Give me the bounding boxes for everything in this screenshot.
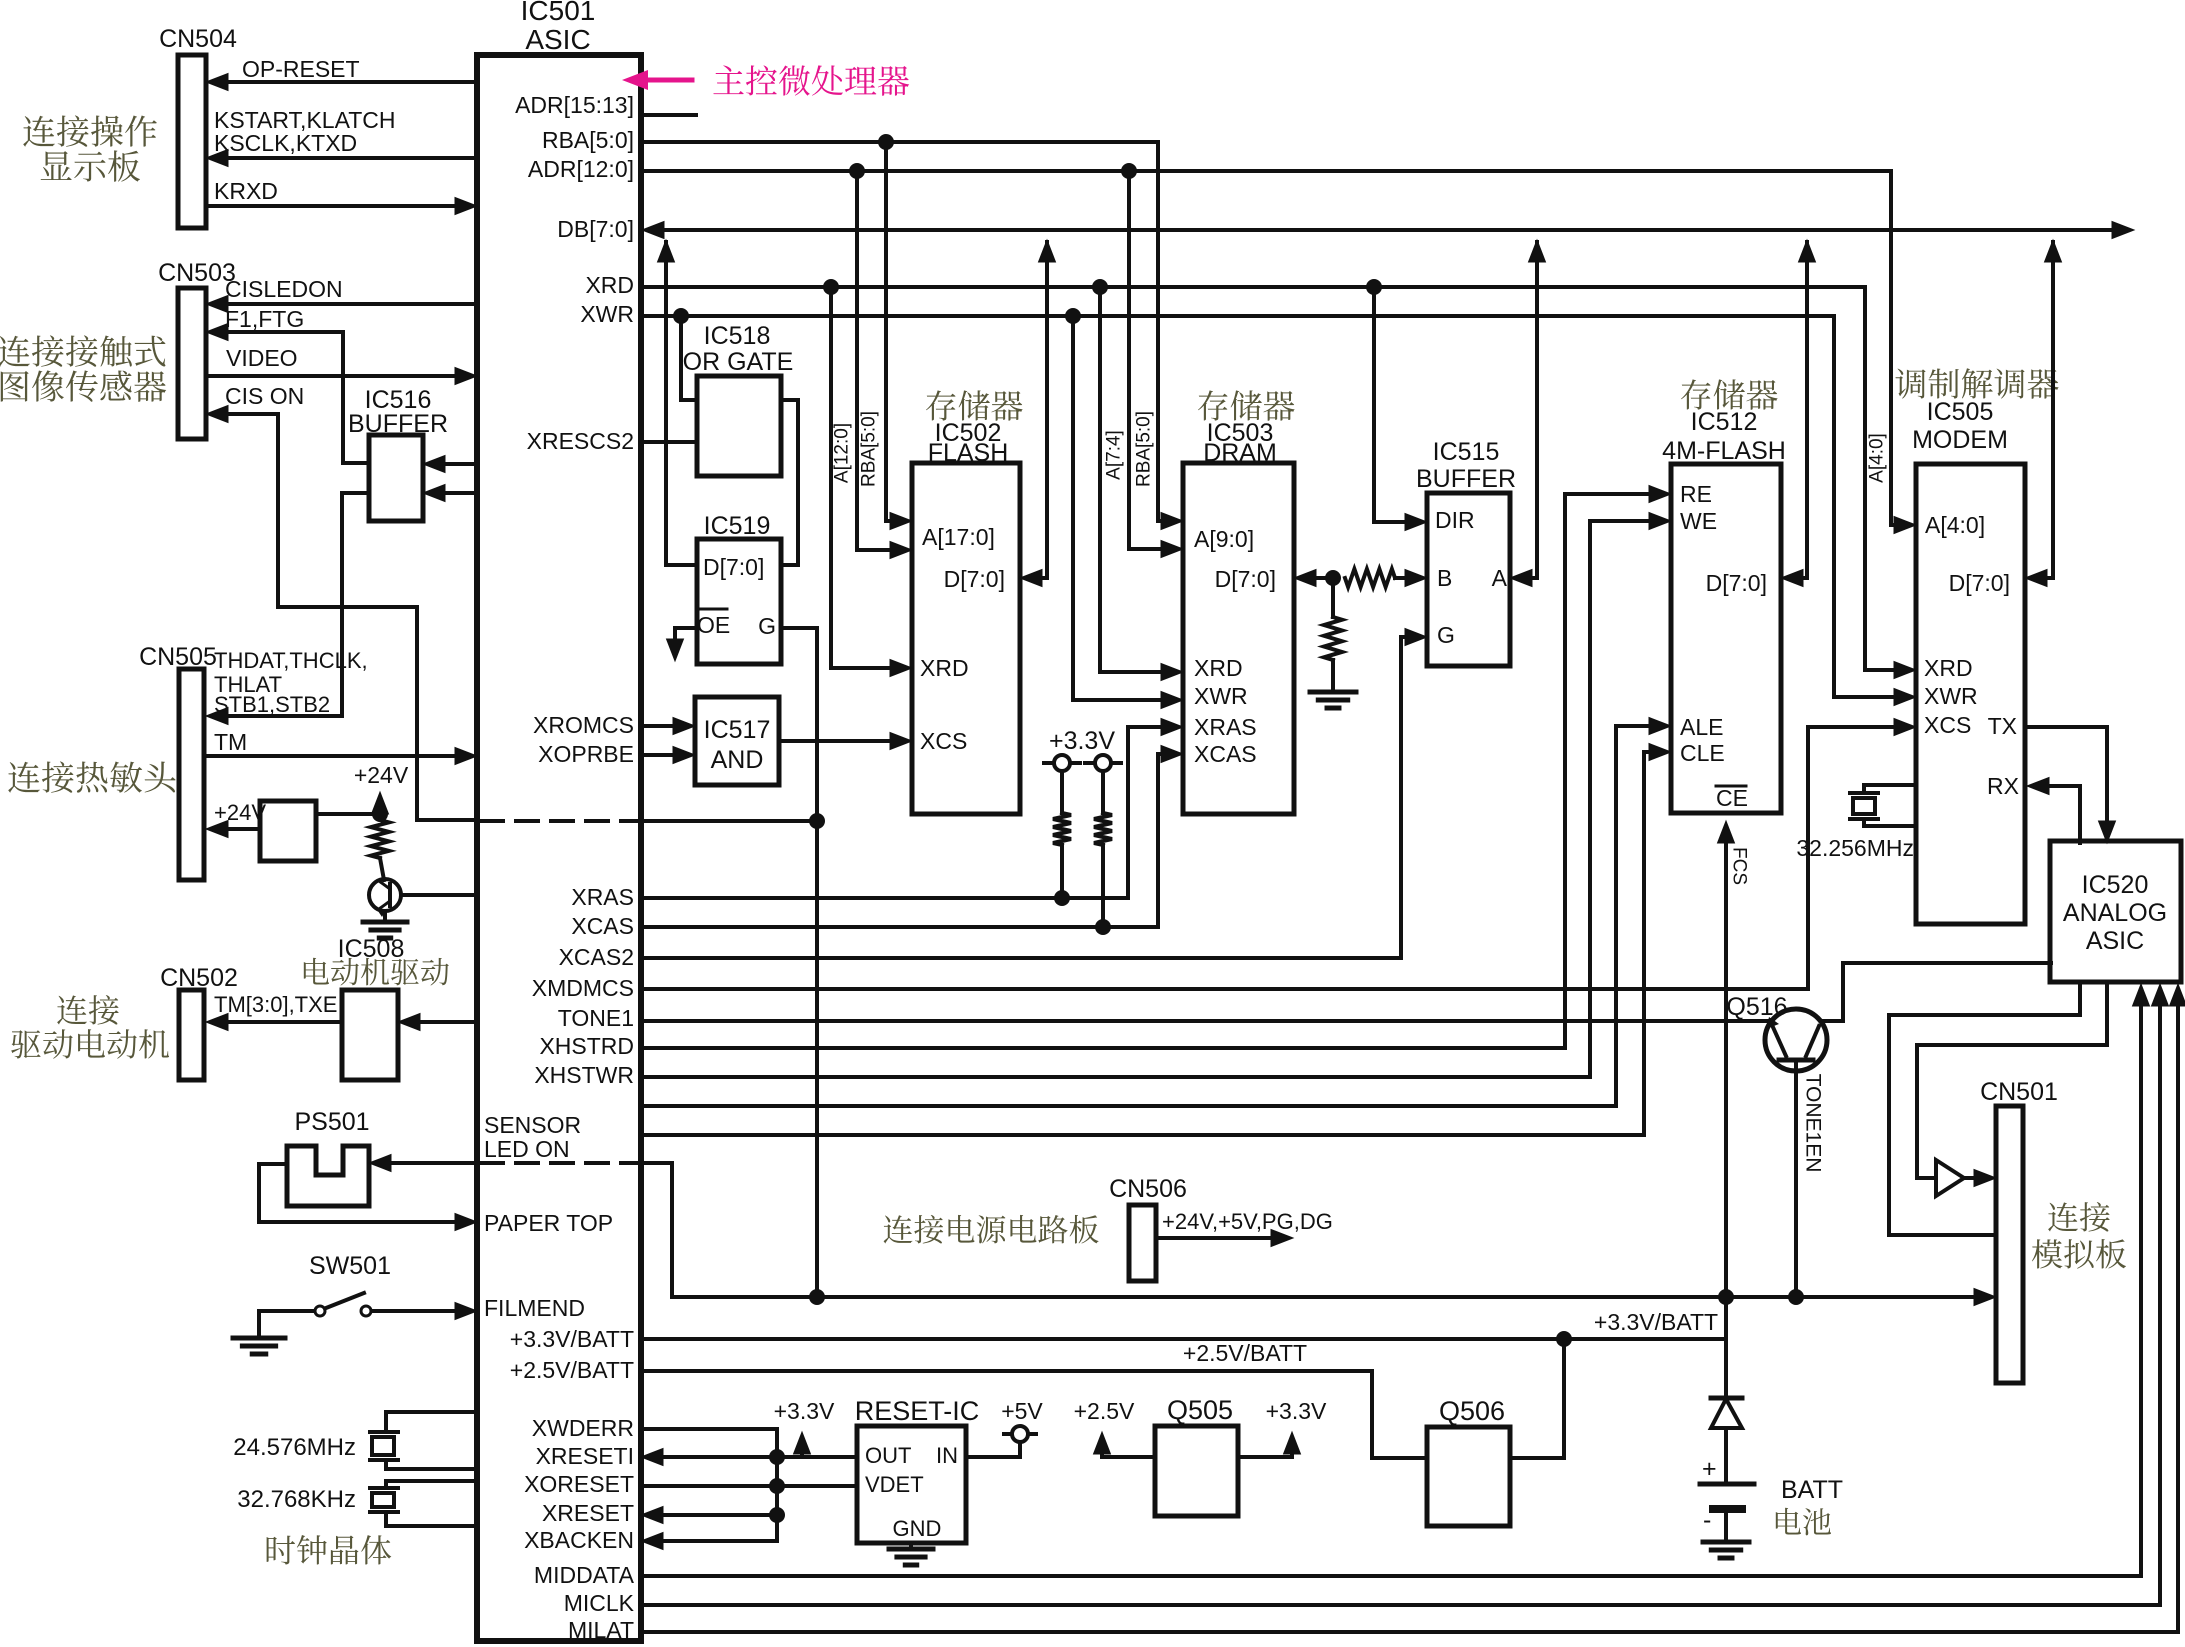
svg-text:CN502: CN502 [160, 964, 238, 992]
wire RBA to IC503 A [1158, 142, 1171, 521]
connector CN504 [178, 55, 206, 228]
svg-text:FLASH: FLASH [928, 439, 1009, 467]
svg-text:+: + [1702, 1455, 1717, 1483]
buffer (line driver to CN501) [1936, 1160, 1964, 1196]
svg-text:FCS: FCS [1729, 847, 1750, 885]
svg-text:D[7:0]: D[7:0] [1706, 570, 1767, 596]
regulator Q505 [1155, 1426, 1238, 1516]
svg-text:A[17:0]: A[17:0] [922, 524, 995, 550]
svg-text:MODEM: MODEM [1912, 426, 2008, 454]
svg-text:XRESET: XRESET [542, 1500, 634, 1526]
label: connect thermal head (Chinese) [8, 761, 175, 792]
svg-text:XMDMCS: XMDMCS [532, 975, 634, 1001]
wire DB to IC512 D [1793, 242, 1807, 578]
svg-text:XRESCS2: XRESCS2 [527, 428, 634, 454]
wire DB to IC519 [664, 242, 668, 565]
svg-text:+3.3V/BATT: +3.3V/BATT [510, 1326, 634, 1352]
svg-text:FILMEND: FILMEND [484, 1295, 585, 1321]
svg-text:IC515: IC515 [1433, 438, 1500, 466]
svg-text:XWR: XWR [1194, 683, 1248, 709]
wire +24V/control (dashed inside IC501) [481, 819, 637, 823]
crystal 32.256MHz [1864, 783, 1916, 787]
wire DB to IC505 D [2037, 242, 2053, 578]
label: motor drive (Chinese) [304, 958, 449, 986]
svg-text:-: - [1703, 1506, 1711, 1534]
connector CN505 [179, 669, 204, 880]
svg-text:+3.3V: +3.3V [1049, 727, 1115, 755]
svg-text:+2.5V: +2.5V [1074, 1398, 1135, 1424]
buffer IC515 [1427, 493, 1510, 666]
svg-text:VIDEO: VIDEO [226, 345, 298, 371]
wire DB to IC515 A [1522, 242, 1537, 578]
svg-text:TONE1EN: TONE1EN [1802, 1074, 1825, 1173]
ground (RESET-IC) [909, 1543, 913, 1549]
or-gate IC518 [697, 376, 781, 476]
svg-text:DB[7:0]: DB[7:0] [557, 216, 634, 242]
transistor Q (motor/head driver) [369, 879, 401, 911]
wire IC501 to IC516 lower [433, 491, 477, 495]
svg-text:SENSOR: SENSOR [484, 1112, 581, 1138]
svg-text:KRXD: KRXD [214, 178, 278, 204]
svg-text:MICLK: MICLK [564, 1590, 635, 1616]
flash memory IC502 [912, 463, 1020, 814]
wire XRD to IC505 [1865, 287, 1904, 670]
svg-text:ASIC: ASIC [2086, 927, 2144, 955]
wire OUT / +3.3V [777, 1455, 857, 1459]
svg-text:RBA[5:0]: RBA[5:0] [859, 411, 880, 487]
connector CN506 [1129, 1205, 1156, 1281]
svg-text:A[12:0]: A[12:0] [832, 423, 853, 483]
wire IC520 to buffer to CN501 [1917, 984, 2107, 1178]
svg-text:CIS ON: CIS ON [225, 383, 304, 409]
dram IC503 [1183, 463, 1294, 814]
svg-text:XRESETI: XRESETI [536, 1443, 634, 1469]
svg-text:XWDERR: XWDERR [532, 1415, 634, 1441]
wire to ALE [641, 726, 1659, 1106]
svg-text:+3.3V/BATT: +3.3V/BATT [1594, 1309, 1718, 1335]
svg-text:Q506: Q506 [1439, 1396, 1505, 1426]
svg-text:XRD: XRD [920, 655, 969, 681]
label: memory (Chinese) for IC503 [1198, 390, 1295, 420]
svg-text:DIR: DIR [1435, 507, 1475, 533]
svg-text:IC512: IC512 [1691, 408, 1758, 436]
svg-text:PAPER TOP: PAPER TOP [484, 1210, 613, 1236]
svg-text:TM[3:0],TXE: TM[3:0],TXE [214, 992, 337, 1017]
ground (D-bus resistor) [1310, 690, 1356, 695]
svg-text:D[7:0]: D[7:0] [1949, 570, 2010, 596]
svg-text:BUFFER: BUFFER [348, 410, 448, 438]
svg-text:+3.3V: +3.3V [1266, 1398, 1327, 1424]
svg-text:RBA[5:0]: RBA[5:0] [1134, 411, 1155, 487]
wire FCS (CE feed) [1724, 831, 1728, 1341]
flash IC512 [1671, 464, 1781, 813]
svg-text:24.576MHz: 24.576MHz [233, 1434, 356, 1461]
svg-text:XCAS2: XCAS2 [559, 944, 634, 970]
svg-text:CN501: CN501 [1980, 1078, 2058, 1106]
svg-text:XHSTWR: XHSTWR [534, 1062, 634, 1088]
resistor (pull-up to transistor) [371, 820, 389, 858]
svg-text:XROMCS: XROMCS [533, 712, 634, 738]
label: connect analog board (Chinese) [2048, 1202, 2110, 1232]
svg-text:MILAT: MILAT [568, 1617, 634, 1643]
svg-text:A[7:4]: A[7:4] [1104, 430, 1125, 480]
wire IC516 to CN505 head signals [216, 493, 369, 716]
wire TX to IC520 [2025, 727, 2107, 833]
svg-text:RBA[5:0]: RBA[5:0] [542, 127, 634, 153]
label: main micro-processor (Chinese, pink) [713, 65, 909, 95]
svg-text:IC517: IC517 [704, 716, 771, 744]
svg-text:D[7:0]: D[7:0] [944, 566, 1005, 592]
wire XRD to IC503 [1100, 287, 1171, 672]
svg-text:Q505: Q505 [1167, 1395, 1233, 1425]
svg-text:CN506: CN506 [1109, 1175, 1187, 1203]
svg-text:+3.3V: +3.3V [774, 1398, 835, 1424]
svg-text:CLE: CLE [1680, 740, 1725, 766]
wire VDET [777, 1484, 857, 1488]
wire IC520 to CN501 (outer) [1889, 984, 2080, 1235]
svg-text:IC519: IC519 [704, 512, 771, 540]
wire XRD to IC502 [831, 287, 900, 668]
resistor (D bus series) and wire to B [1345, 569, 1395, 587]
connector CN501 [1996, 1106, 2023, 1383]
svg-text:OE: OE [697, 612, 730, 638]
svg-text:XRD: XRD [1194, 655, 1243, 681]
svg-text:+2.5V/BATT: +2.5V/BATT [510, 1357, 634, 1383]
svg-text:PS501: PS501 [294, 1108, 369, 1136]
svg-text:ADR[15:13]: ADR[15:13] [515, 92, 634, 118]
svg-text:XHSTRD: XHSTRD [539, 1033, 634, 1059]
modem IC505 [1916, 464, 2025, 924]
driver box (thermistor) [260, 801, 316, 861]
svg-text:LED ON: LED ON [484, 1136, 570, 1162]
svg-text:TM: TM [214, 729, 247, 755]
svg-text:ALE: ALE [1680, 714, 1723, 740]
wire A[7:4] to IC503 A [1129, 171, 1171, 549]
svg-text:MIDDATA: MIDDATA [534, 1562, 635, 1588]
wire TONE1EN [1794, 1071, 1798, 1297]
wire DB to IC502 D [1032, 242, 1047, 578]
wire IN / +5V [966, 1455, 1020, 1459]
wire IC501 to IC508 [408, 1020, 477, 1024]
svg-text:CN504: CN504 [159, 25, 237, 53]
svg-text:BUFFER: BUFFER [1416, 465, 1516, 493]
latch IC519 [697, 539, 781, 664]
wire Q505 out / +3.3V [1238, 1455, 1292, 1459]
svg-text:WE: WE [1680, 508, 1717, 534]
svg-text:B: B [1437, 565, 1452, 591]
svg-text:ADR[12:0]: ADR[12:0] [528, 156, 634, 182]
wire ADR to IC505 A[4:0] [1891, 171, 1904, 525]
svg-text:32.256MHz: 32.256MHz [1796, 835, 1914, 861]
svg-text:AND: AND [711, 746, 764, 774]
svg-text:KSCLK,KTXD: KSCLK,KTXD [214, 130, 357, 156]
svg-text:+5V: +5V [1001, 1398, 1043, 1424]
wire A[12:0] to IC502 A [857, 171, 900, 550]
svg-text:GND: GND [893, 1516, 942, 1541]
wire XWR to IC518 [681, 316, 697, 400]
wire transistor base to IC501 [401, 893, 477, 897]
svg-text:XRAS: XRAS [571, 884, 634, 910]
svg-text:XRD: XRD [1924, 655, 1973, 681]
wire IC503 D to node [1306, 576, 1333, 580]
buffer IC516 [369, 435, 423, 521]
diode D (battery isolation) [1724, 1341, 1728, 1398]
svg-text:IC520: IC520 [2082, 871, 2149, 899]
reset ic RESET-IC [857, 1426, 966, 1543]
analog asic IC520 [2050, 841, 2181, 982]
svg-text:IC505: IC505 [1927, 398, 1994, 426]
svg-text:G: G [1437, 622, 1455, 648]
svg-text:DRAM: DRAM [1203, 439, 1277, 467]
svg-text:IC508: IC508 [338, 935, 405, 963]
svg-text:F1,FTG: F1,FTG [225, 306, 304, 332]
op-amp U? / ASIC IC501 main controller box [477, 55, 641, 1641]
label: clock crystals (Chinese) [267, 1535, 392, 1565]
svg-text:RE: RE [1680, 481, 1712, 507]
svg-text:OR GATE: OR GATE [683, 348, 794, 376]
svg-text:THDAT,THCLK,: THDAT,THCLK, [214, 648, 368, 673]
wire XWR to IC503 [1073, 316, 1171, 700]
wire sensor-led-on to CN501 (long) [641, 1163, 1984, 1297]
svg-text:XCAS: XCAS [1194, 741, 1257, 767]
svg-text:ANALOG: ANALOG [2063, 899, 2167, 927]
wire Q516 collector to IC520 [1822, 963, 2051, 1021]
wire XRD to DIR [1374, 287, 1415, 522]
wire Q506 out [1510, 1341, 1564, 1458]
resistor R (XCAS pull-up) [1101, 771, 1105, 813]
ground (transistor emitter) [383, 911, 387, 922]
svg-text:BATT: BATT [1781, 1476, 1843, 1504]
svg-text:XORESET: XORESET [524, 1471, 634, 1497]
svg-text:IC518: IC518 [704, 322, 771, 350]
svg-text:+24V,+5V,PG,DG: +24V,+5V,PG,DG [1162, 1209, 1333, 1234]
svg-text:IC501: IC501 [521, 0, 596, 26]
svg-text:IN: IN [936, 1443, 958, 1468]
wire XWR to IC505 [1834, 316, 1904, 697]
wire IC501 to IC516 upper [433, 462, 477, 466]
wire IC518 out to IC519 [781, 400, 798, 565]
ground (SW501) [257, 1311, 261, 1338]
svg-text:XRD: XRD [585, 272, 634, 298]
svg-text:OP-RESET: OP-RESET [242, 56, 360, 82]
svg-text:STB1,STB2: STB1,STB2 [214, 692, 330, 717]
wire to CLE [641, 752, 1659, 1135]
svg-text:G: G [758, 613, 776, 639]
ground (battery) [1703, 1540, 1749, 1545]
wire RX from IC520 [2037, 784, 2080, 788]
svg-text:TX: TX [1988, 713, 2017, 739]
connector CN502 [179, 990, 204, 1080]
label: connect drive motor (Chinese) [57, 995, 119, 1025]
resistor to ground (D bus) [1331, 578, 1335, 617]
label: memory (Chinese) for IC502 [926, 390, 1023, 420]
resistor R (XRAS pull-up) [1060, 771, 1064, 813]
svg-text:XCS: XCS [920, 728, 967, 754]
svg-text:A[4:0]: A[4:0] [1925, 512, 1985, 538]
svg-text:VDET: VDET [865, 1472, 924, 1497]
wire IC517 out to IC502 XCS [779, 739, 900, 743]
svg-text:CE: CE [1716, 785, 1748, 811]
svg-text:32.768KHz: 32.768KHz [237, 1486, 356, 1513]
svg-text:XOPRBE: XOPRBE [538, 741, 634, 767]
svg-text:XWR: XWR [580, 301, 634, 327]
svg-text:XWR: XWR [1924, 683, 1978, 709]
motor driver IC508 [342, 990, 398, 1080]
svg-text:D[7:0]: D[7:0] [1215, 566, 1276, 592]
svg-text:A[9:0]: A[9:0] [1194, 526, 1254, 552]
svg-text:XCAS: XCAS [571, 913, 634, 939]
svg-text:XCS: XCS [1924, 712, 1971, 738]
svg-text:RX: RX [1987, 773, 2019, 799]
label: connect contact image sensor (Chinese) [0, 335, 166, 366]
svg-text:+24V: +24V [354, 762, 409, 788]
svg-text:A[4:0]: A[4:0] [1867, 433, 1888, 483]
and-gate IC517 [695, 697, 779, 785]
svg-text:TONE1: TONE1 [558, 1005, 634, 1031]
regulator Q506 [1427, 1427, 1510, 1526]
svg-text:D[7:0]: D[7:0] [703, 554, 764, 580]
annotation arrow (pink) to IC501 [622, 70, 692, 90]
connector CN503 [178, 288, 206, 439]
label: modem (Chinese) [1895, 368, 2058, 398]
svg-text:OUT: OUT [865, 1443, 911, 1468]
svg-text:A: A [1492, 565, 1508, 591]
svg-text:XRAS: XRAS [1194, 714, 1257, 740]
svg-text:4M-FLASH: 4M-FLASH [1662, 437, 1786, 465]
svg-text:XBACKEN: XBACKEN [524, 1527, 634, 1553]
svg-text:RESET-IC: RESET-IC [855, 1396, 980, 1426]
wire box to +24V node [316, 812, 380, 816]
svg-text:ASIC: ASIC [525, 24, 590, 55]
label: memory (Chinese) for IC512 [1681, 379, 1778, 409]
label: connect operation display board (Chinese) [23, 115, 157, 146]
svg-text:CISLEDON: CISLEDON [225, 276, 343, 302]
label: connect power board (Chinese) [884, 1215, 1099, 1244]
wire RBA to IC502 A [886, 142, 900, 521]
svg-text:SW501: SW501 [309, 1252, 391, 1280]
svg-text:CN505: CN505 [139, 643, 217, 671]
svg-text:+2.5V/BATT: +2.5V/BATT [1183, 1340, 1307, 1366]
